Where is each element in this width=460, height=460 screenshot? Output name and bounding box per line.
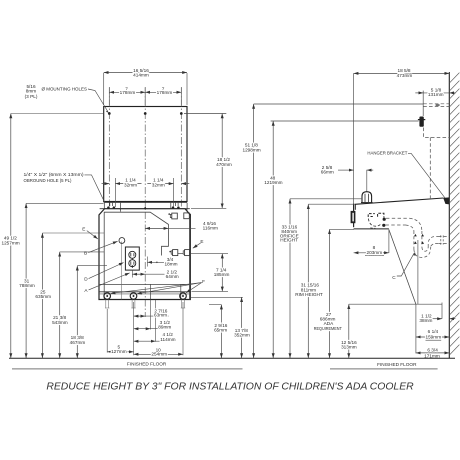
trap down pipe bbox=[414, 231, 422, 249]
dim 7 line right bbox=[145, 91, 181, 93]
valve nut top bbox=[383, 218, 386, 221]
dim 5 1/8 line bbox=[423, 92, 449, 94]
FRONT VIEW bbox=[99, 87, 191, 317]
dim 13 7/8 ext bbox=[191, 296, 243, 298]
centerline center column bbox=[144, 87, 146, 317]
svg-text:32mm: 32mm bbox=[152, 182, 165, 187]
svg-text:178mm: 178mm bbox=[157, 90, 173, 95]
mounting hole left bbox=[108, 112, 111, 115]
leader F lines bbox=[111, 283, 202, 294]
svg-text:116mm: 116mm bbox=[203, 226, 218, 231]
svg-text:HANGER BRACKET: HANGER BRACKET bbox=[367, 151, 407, 156]
receptacle screw bbox=[131, 258, 133, 268]
dim 7 1/4 ext bottom bbox=[192, 290, 229, 292]
finished floor line bbox=[9, 357, 455, 359]
wall hatching bbox=[449, 73, 459, 355]
waste line lower bbox=[386, 224, 406, 226]
svg-text:171mm: 171mm bbox=[424, 353, 440, 358]
dim 31 ext bbox=[26, 202, 103, 204]
leader A bbox=[89, 273, 130, 290]
bubbler centerline bbox=[366, 170, 368, 192]
svg-text:203mm: 203mm bbox=[366, 250, 382, 255]
fitting row1 square right bbox=[184, 213, 190, 219]
trap elbow outer bbox=[428, 237, 438, 247]
anchor bolt 1 bbox=[105, 300, 109, 309]
floor hatch bar left bbox=[12, 368, 243, 370]
svg-text:66mm: 66mm bbox=[321, 169, 334, 174]
wall line bbox=[448, 72, 450, 358]
anchor circle 1 bbox=[104, 293, 111, 300]
svg-text:FINISHED FLOOR: FINISHED FLOOR bbox=[377, 362, 417, 367]
dim 16 5/16 ext left bbox=[103, 73, 105, 105]
receptacle outline bbox=[125, 247, 139, 270]
svg-text:414mm: 414mm bbox=[133, 73, 149, 78]
svg-text:OBROUND HOLE (5 PL): OBROUND HOLE (5 PL) bbox=[24, 178, 72, 183]
dim 2 1/2 line bbox=[132, 273, 145, 275]
svg-text:65mm: 65mm bbox=[214, 327, 227, 332]
dashed cabinet back bbox=[429, 137, 431, 198]
dim 18 5/8 line bbox=[354, 72, 450, 74]
obround hole 2 bbox=[113, 206, 116, 209]
svg-text:8mm: 8mm bbox=[26, 89, 37, 94]
fitting row2 dot bbox=[169, 251, 171, 253]
svg-text:F: F bbox=[202, 279, 205, 284]
dim 25 ext bbox=[42, 232, 104, 234]
dim 31 15/16 line bbox=[307, 204, 309, 358]
dim 1 1/2 arrows bbox=[433, 318, 442, 320]
orifice ext line bbox=[290, 198, 362, 200]
bubbler base bbox=[361, 202, 373, 204]
dashed back panel profile bbox=[423, 128, 449, 138]
drain vertical bbox=[417, 240, 419, 304]
top line 51 1/8 ext bbox=[254, 103, 424, 105]
svg-text:1/4" X 1/2" (6mm X 13mm): 1/4" X 1/2" (6mm X 13mm) bbox=[24, 172, 84, 177]
svg-text:114mm: 114mm bbox=[160, 337, 175, 342]
mounting hole right bbox=[180, 112, 183, 115]
svg-text:63mm: 63mm bbox=[154, 313, 167, 318]
dim 18 3/8 line bbox=[76, 266, 78, 358]
waste flange bbox=[441, 235, 443, 245]
pipe flow arrows bbox=[414, 234, 417, 237]
dim 7 1/4 ext top bbox=[191, 253, 228, 255]
dim 7 ext lines bbox=[109, 88, 181, 106]
drain box right vertical bbox=[180, 284, 182, 299]
mounting hole center bbox=[144, 112, 147, 115]
dim 16 5/16 line bbox=[104, 72, 187, 74]
dim 8 ext bbox=[388, 230, 390, 253]
svg-text:18mm: 18mm bbox=[164, 262, 177, 267]
dim 51 1/8 line bbox=[253, 104, 255, 358]
dim 1 1/4 left arrows bbox=[102, 183, 110, 185]
obround ext line right bbox=[173, 178, 175, 207]
svg-text:32mm: 32mm bbox=[124, 182, 137, 187]
row2 rail bbox=[178, 253, 184, 255]
push pad bbox=[351, 211, 356, 223]
svg-text:635mm: 635mm bbox=[35, 294, 51, 299]
FRONT VIEW TEXTS bbox=[1, 68, 249, 357]
SIDE VIEW TEXTS bbox=[242, 68, 443, 358]
dim 2 9/16 line bbox=[220, 305, 222, 358]
dim 27 line bbox=[329, 229, 331, 358]
svg-text:REDUCE HEIGHT BY 3" FOR INSTAL: REDUCE HEIGHT BY 3" FOR INSTALLATION OF … bbox=[46, 382, 414, 393]
dim 2 5/8 leader bbox=[338, 169, 354, 171]
obround hole 3 bbox=[172, 206, 175, 209]
anchor circle 2 bbox=[130, 293, 137, 300]
dim 6 1/4 underline bbox=[426, 339, 442, 341]
obround hole 1 bbox=[107, 206, 110, 209]
drain box left vertical bbox=[150, 284, 152, 299]
trap U inner bbox=[422, 247, 428, 251]
svg-text:473mm: 473mm bbox=[397, 73, 413, 78]
waste line upper bbox=[386, 217, 410, 219]
svg-text:470mm: 470mm bbox=[216, 162, 232, 167]
svg-text:1219mm: 1219mm bbox=[264, 180, 282, 185]
svg-text:E: E bbox=[82, 226, 85, 231]
leader D bbox=[89, 263, 124, 279]
rear corner piece bbox=[443, 197, 449, 204]
valve bowl dashed bbox=[368, 219, 381, 227]
bottom ext line bbox=[349, 303, 442, 305]
svg-text:89mm: 89mm bbox=[158, 324, 171, 329]
obround ext line left bbox=[114, 178, 116, 207]
dim 33 1/16 line bbox=[289, 199, 291, 358]
inner right vertical bbox=[188, 219, 190, 300]
front face ext line bbox=[353, 73, 355, 203]
dim 49 1/2 ext bbox=[11, 113, 104, 115]
slant bottom panel bbox=[389, 230, 416, 305]
water line vertical bbox=[121, 242, 123, 300]
dim 6 1/4 line bbox=[416, 336, 449, 338]
hidden line top to wall bbox=[423, 103, 449, 105]
obround hole 4 bbox=[177, 206, 180, 209]
fitting row2 square right bbox=[185, 250, 190, 256]
dim 4 9/16 line bbox=[145, 227, 168, 229]
fitting row1 square left bbox=[172, 213, 178, 219]
dim 10 line bbox=[134, 353, 183, 355]
dim 16 5/16 ext right bbox=[186, 73, 188, 105]
mounting tab right bbox=[171, 203, 187, 212]
svg-text:REQUIREMENT: REQUIREMENT bbox=[314, 326, 342, 331]
leader C bbox=[397, 253, 414, 276]
svg-text:543mm: 543mm bbox=[52, 320, 68, 325]
leader mounting holes bbox=[88, 89, 108, 112]
dim 3 1/2 line bbox=[134, 328, 151, 330]
dim 6 3/4 line bbox=[416, 352, 449, 354]
svg-text:B: B bbox=[84, 250, 87, 255]
waste bend outer bbox=[410, 218, 422, 231]
svg-text:6 3/4: 6 3/4 bbox=[427, 348, 438, 353]
fitting row2 square left bbox=[173, 250, 178, 256]
inner bottom line bbox=[99, 283, 190, 285]
dim 25 line bbox=[41, 233, 43, 358]
svg-text:RIM HEIGHT: RIM HEIGHT bbox=[295, 292, 323, 297]
anchor circle 3 bbox=[180, 293, 187, 300]
dim 1 1/2 ext bbox=[441, 303, 443, 319]
front face bbox=[353, 204, 355, 228]
svg-text:FINISHED FLOOR: FINISHED FLOOR bbox=[127, 362, 167, 367]
dim 2 7/16 line bbox=[134, 315, 146, 317]
FLOOR bbox=[9, 358, 455, 369]
mounting tab left bbox=[104, 203, 120, 212]
svg-text:64mm: 64mm bbox=[166, 274, 179, 279]
underside front bbox=[354, 228, 389, 230]
dim 7 line left bbox=[109, 91, 145, 93]
dim 48 line bbox=[272, 121, 274, 358]
svg-text:HEIGHT: HEIGHT bbox=[280, 238, 298, 243]
leader E right bbox=[193, 243, 201, 248]
anchor bolt 2 bbox=[131, 300, 135, 309]
svg-text:178mm: 178mm bbox=[120, 90, 136, 95]
dim 13 7/8 line bbox=[241, 297, 243, 358]
bracket ext line 48 bbox=[271, 120, 419, 122]
dim 21 3/8 ext bbox=[60, 251, 104, 253]
svg-text:185mm: 185mm bbox=[214, 272, 230, 277]
centerline left hole column bbox=[108, 87, 110, 207]
FRONT VIEW DIMENSIONS bbox=[11, 73, 243, 359]
dim 5 line bbox=[107, 351, 133, 353]
dim 31 line bbox=[25, 203, 27, 358]
svg-text:788mm: 788mm bbox=[19, 283, 35, 288]
dim 21 3/8 line bbox=[59, 252, 61, 358]
svg-text:E: E bbox=[200, 239, 203, 244]
hidden line arrow tick bbox=[436, 104, 440, 105]
svg-text:131mm: 131mm bbox=[428, 92, 444, 97]
base rail lower bbox=[99, 293, 190, 295]
dim 18 1/2 line bbox=[221, 114, 223, 209]
svg-text:467mm: 467mm bbox=[70, 340, 86, 345]
floor hatch bar right bbox=[330, 368, 438, 370]
dim 18 1/2 ext bbox=[191, 207, 226, 209]
back edge tick bbox=[422, 91, 424, 116]
base rail bbox=[99, 291, 190, 293]
cabinet top edge bbox=[100, 208, 190, 210]
waste arm to wall bbox=[439, 236, 450, 238]
receptacle outlet bottom bbox=[129, 260, 136, 267]
leader hanger bracket bbox=[408, 153, 447, 200]
valve nut bottom bbox=[382, 224, 385, 227]
back panel bbox=[104, 107, 187, 202]
dim 8 underline bbox=[365, 254, 384, 256]
svg-text:D: D bbox=[84, 277, 88, 282]
hole B circle bbox=[119, 238, 125, 244]
dim 18 3/8 ext bbox=[77, 265, 107, 267]
svg-text:1298mm: 1298mm bbox=[242, 147, 260, 152]
rim ext line bbox=[308, 203, 355, 205]
dim 3/4 tick bbox=[146, 257, 148, 267]
valve bracket marks bbox=[368, 214, 375, 217]
dim 4 1/2 line bbox=[134, 340, 156, 342]
svg-text:Ø MOUNTING HOLES: Ø MOUNTING HOLES bbox=[42, 86, 88, 91]
bubbler dome bbox=[362, 192, 372, 203]
trap elbow inner bbox=[431, 243, 439, 246]
inner step outline bbox=[104, 212, 168, 299]
svg-text:127mm: 127mm bbox=[111, 349, 127, 354]
leader B bbox=[88, 241, 117, 252]
dim 8 line bbox=[354, 252, 389, 254]
dim 7 1/4 line bbox=[221, 254, 223, 292]
SIDE VIEW bbox=[254, 72, 460, 358]
dim 1 1/4 right arrows bbox=[181, 183, 189, 185]
svg-text:352mm: 352mm bbox=[234, 332, 250, 337]
dim 12 5/16 line bbox=[348, 304, 350, 358]
hanger bracket solid bbox=[419, 117, 423, 127]
rim front lip bbox=[354, 204, 356, 210]
dim 3/4 leader bbox=[147, 261, 164, 263]
dim 2 9/16 ext bbox=[209, 304, 221, 306]
bottom ext lines bbox=[107, 300, 183, 355]
svg-text:1257mm: 1257mm bbox=[1, 241, 19, 246]
leader E left bbox=[87, 231, 98, 239]
waste bend inner bbox=[406, 225, 414, 231]
anchor bolt 3 bbox=[181, 300, 185, 309]
obround hole center bbox=[144, 206, 147, 209]
svg-text:159mm: 159mm bbox=[425, 334, 441, 339]
dim 49 1/2 line bbox=[10, 114, 12, 359]
panel bottom edge bbox=[104, 201, 187, 203]
fitting row1 dot bbox=[168, 213, 170, 215]
svg-text:38mm: 38mm bbox=[419, 318, 432, 323]
svg-text:313mm: 313mm bbox=[341, 344, 357, 349]
top surface bbox=[355, 198, 444, 204]
dim 5 1/8 arrows bbox=[415, 92, 423, 94]
dim 27 ext bbox=[330, 228, 355, 230]
trap U outer bbox=[414, 246, 431, 257]
centerline right hole column bbox=[180, 87, 182, 207]
leader obround bbox=[84, 175, 104, 202]
svg-text:254mm: 254mm bbox=[151, 352, 167, 357]
cabinet outline bbox=[99, 209, 190, 300]
dim 18 1/2 ext top bbox=[184, 113, 226, 115]
svg-text:(3 PL): (3 PL) bbox=[25, 94, 38, 99]
receptacle outlet top bbox=[129, 251, 136, 258]
